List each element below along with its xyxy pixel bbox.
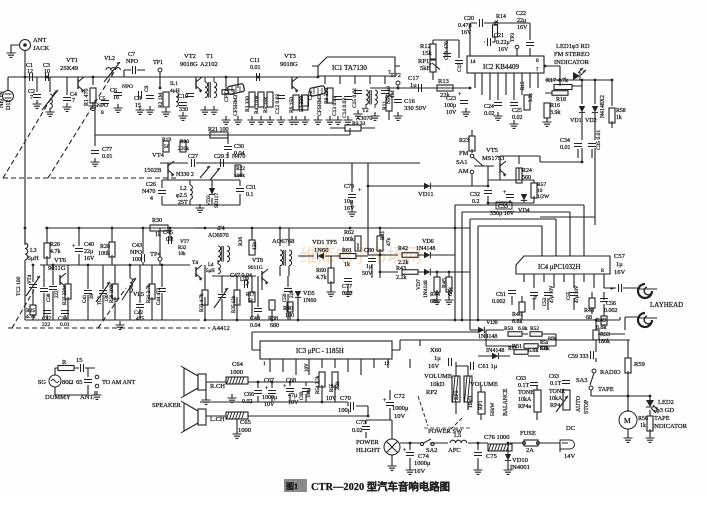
svg-text:1N4148: 1N4148 <box>423 280 429 298</box>
svg-text:4.7k: 4.7k <box>26 314 36 320</box>
diode VD1 <box>570 106 585 124</box>
capacitor C65 1000 <box>226 412 251 434</box>
svg-text:C38: C38 <box>47 293 52 302</box>
svg-text:VD5: VD5 <box>303 291 315 297</box>
svg-text:IN4148: IN4148 <box>486 348 504 354</box>
svg-text:22μ: 22μ <box>84 249 93 255</box>
svg-text:NEON: NEON <box>0 91 5 108</box>
resistor R60 4.7k <box>316 268 334 283</box>
diode VD7 <box>416 269 430 298</box>
wire <box>368 228 470 296</box>
svg-text:1000μ: 1000μ <box>414 460 431 467</box>
node TP3 <box>510 33 519 49</box>
svg-text:C63: C63 <box>549 374 559 380</box>
svg-text:1: 1 <box>263 361 266 367</box>
svg-text:65: 65 <box>76 379 83 386</box>
capacitor C51 0.002 <box>492 291 516 306</box>
svg-text:C76 1000: C76 1000 <box>484 434 509 441</box>
resistor R33 4.7k <box>200 290 208 312</box>
svg-text:C6: C6 <box>110 88 117 94</box>
wire <box>598 288 640 334</box>
capacitor C37 222 <box>42 311 51 329</box>
svg-text:C8: C8 <box>134 96 141 102</box>
fuse FUSE 2A <box>520 430 540 454</box>
resistor R50 6.8k <box>504 326 528 336</box>
svg-text:VT7: VT7 <box>180 240 190 245</box>
svg-text:AM: AM <box>458 168 469 175</box>
resistor R26 4.7k <box>44 242 61 258</box>
svg-text:C25: C25 <box>512 108 522 114</box>
wire <box>366 390 392 462</box>
svg-text:C34: C34 <box>560 138 570 144</box>
diode VD5 1N60 <box>295 291 317 304</box>
svg-text:R53: R53 <box>600 332 610 338</box>
svg-text:222: 222 <box>42 322 51 328</box>
tuning gang dashed link <box>98 288 126 328</box>
svg-text:DUMMY: DUMMY <box>45 394 71 401</box>
svg-text:R22: R22 <box>236 166 245 172</box>
svg-text:R7 330: R7 330 <box>299 96 305 112</box>
svg-text:12: 12 <box>384 361 390 367</box>
svg-text:TP2: TP2 <box>390 72 401 79</box>
capacitor C52 1u <box>530 293 538 301</box>
wire <box>25 280 200 320</box>
svg-text:VD6: VD6 <box>422 239 434 245</box>
svg-text:VT6: VT6 <box>54 257 67 264</box>
ground <box>89 102 98 110</box>
wire <box>270 359 388 375</box>
capacitor C4 <box>63 92 77 104</box>
capacitor C13 0.01 <box>332 96 342 116</box>
svg-text:VOLUME: VOLUME <box>424 373 452 380</box>
svg-text:47μ: 47μ <box>288 393 297 399</box>
svg-text:C66: C66 <box>244 392 254 398</box>
svg-text:C80: C80 <box>364 248 374 254</box>
wire <box>462 317 620 362</box>
svg-text:VOLUME: VOLUME <box>470 381 498 388</box>
ground <box>334 116 343 124</box>
capacitor C63b <box>549 374 570 387</box>
label LAYHEAD <box>650 301 683 309</box>
resistor R12 15k <box>420 43 436 59</box>
capacitor C-couple <box>186 94 194 97</box>
svg-text:图1: 图1 <box>286 482 298 491</box>
svg-text:T1: T1 <box>206 53 213 60</box>
potentiometer RP2 <box>452 376 472 402</box>
dashed link to switch <box>418 396 428 426</box>
ground <box>277 116 286 124</box>
svg-text:C59 333: C59 333 <box>568 354 589 360</box>
wire <box>471 130 473 153</box>
ground <box>474 466 483 474</box>
ground <box>136 106 145 114</box>
wire <box>368 163 488 186</box>
svg-text:R8 330: R8 330 <box>324 88 330 104</box>
resistor R17 5k <box>246 292 255 304</box>
ground <box>7 45 20 57</box>
ground <box>624 434 633 442</box>
svg-text:R61: R61 <box>342 248 352 254</box>
svg-text:C61 1μ: C61 1μ <box>478 363 498 370</box>
svg-text:C77: C77 <box>342 284 352 290</box>
resistor R25 4.7k <box>26 305 36 320</box>
wire <box>25 228 170 257</box>
capacitor C79 10u 16V <box>344 184 362 212</box>
tuning gang dashed link <box>8 327 210 329</box>
label VOLUME2 <box>454 381 498 408</box>
ground <box>494 112 503 120</box>
svg-text:C69: C69 <box>300 391 305 400</box>
svg-text:A2102: A2102 <box>200 61 218 68</box>
wire <box>162 180 240 205</box>
svg-text:C15 0.01: C15 0.01 <box>352 88 358 108</box>
capacitor C22 22u 16V <box>516 11 534 46</box>
capacitor C77b 0.02 <box>342 279 353 298</box>
svg-text:1k: 1k <box>616 115 622 121</box>
svg-text:16V: 16V <box>517 25 528 31</box>
wire <box>478 355 540 357</box>
inductor IL1 <box>170 81 180 106</box>
resistor R24 560 <box>516 168 532 183</box>
svg-text:100μ: 100μ <box>338 407 352 414</box>
svg-text:0.22μ: 0.22μ <box>496 40 510 46</box>
wire <box>545 86 582 93</box>
svg-text:100μ: 100μ <box>444 103 456 109</box>
variable inductor VL2 <box>104 56 120 82</box>
wire <box>370 85 470 88</box>
ground <box>314 116 323 124</box>
node TP4 <box>150 251 162 261</box>
resistor bias <box>222 90 234 95</box>
svg-text:R16: R16 <box>550 103 560 109</box>
label R58 333 <box>540 341 549 352</box>
svg-text:R59: R59 <box>634 361 645 368</box>
resistor R1 470 <box>84 88 96 106</box>
svg-text:0.01: 0.01 <box>102 154 113 160</box>
transistor VT6 <box>60 273 66 289</box>
dashed link to switch <box>448 418 462 432</box>
potentiometer RP4b <box>556 390 570 412</box>
svg-text:1M: 1M <box>390 90 396 98</box>
svg-text:0.2: 0.2 <box>472 199 480 205</box>
svg-text:100k: 100k <box>234 173 245 179</box>
svg-text:9011G: 9011G <box>248 265 263 271</box>
ground <box>46 108 55 116</box>
diode VD10 IN4001 <box>505 454 530 471</box>
op-amp IC1 TA7130 <box>318 57 395 76</box>
label SPEAKER <box>152 402 182 409</box>
node TP2 <box>390 72 401 89</box>
resistor R17 4.7k <box>546 78 572 90</box>
label BALANCE <box>503 388 509 416</box>
label VT7 <box>178 240 190 257</box>
wire <box>95 100 350 146</box>
svg-text:R2 1M: R2 1M <box>158 92 164 108</box>
svg-text:CTR—2020 型汽车音响电路图: CTR—2020 型汽车音响电路图 <box>311 480 450 493</box>
capacitor C8 <box>134 91 142 109</box>
svg-text:R49: R49 <box>596 318 606 324</box>
wire <box>100 70 200 77</box>
ground <box>394 112 403 120</box>
motor M <box>619 411 637 429</box>
svg-text:C16: C16 <box>404 98 416 105</box>
resistor R49 6.8k <box>596 316 607 331</box>
svg-text:INDICATOR: INDICATOR <box>554 59 590 66</box>
svg-text:R6 150: R6 150 <box>289 97 295 113</box>
svg-text:10V: 10V <box>305 363 310 372</box>
svg-text:R43: R43 <box>396 266 406 272</box>
svg-text:16V: 16V <box>614 269 626 276</box>
svg-text:C12 0.02: C12 0.02 <box>275 94 281 114</box>
switch SA1 FM/AM <box>456 150 483 175</box>
svg-text:222: 222 <box>55 290 60 298</box>
capacitor C33 330u 10V <box>490 190 515 217</box>
svg-text:5μH: 5μH <box>28 256 39 262</box>
capacitor C7 <box>124 52 145 74</box>
capacitor C24 0.02 <box>484 103 502 118</box>
wire <box>33 265 162 303</box>
capacitor C12 0.02 <box>275 94 285 114</box>
resistor R57 10 1/2W <box>531 182 550 200</box>
wire <box>470 23 530 56</box>
resistor R28 100k <box>98 242 115 257</box>
capacitor C61 1u <box>471 362 498 370</box>
svg-text:L.CH: L.CH <box>210 416 225 423</box>
wire <box>8 51 100 91</box>
ceramic filter CF2 <box>308 85 326 116</box>
svg-text:BALANCE: BALANCE <box>503 388 509 416</box>
junction <box>627 395 630 398</box>
resistor R22 100k <box>234 165 245 179</box>
wire <box>367 186 369 255</box>
svg-text:10: 10 <box>44 69 50 75</box>
svg-text:M: M <box>624 416 631 425</box>
svg-text:220: 220 <box>290 290 295 298</box>
svg-text:C29 3: C29 3 <box>214 154 229 160</box>
resistor R51 6.8k <box>508 344 550 352</box>
svg-text:C11: C11 <box>250 58 260 64</box>
capacitor C14 0.02 <box>342 97 352 119</box>
wire <box>582 113 612 140</box>
wire <box>205 260 288 307</box>
label A4412 <box>212 325 230 332</box>
svg-text:R11: R11 <box>382 101 388 110</box>
capacitor C18 470 <box>443 41 451 60</box>
svg-text:5k: 5k <box>248 299 254 304</box>
svg-text:R50: R50 <box>504 326 513 332</box>
svg-text:R1 470: R1 470 <box>84 88 90 106</box>
capacitor C45 0.2 <box>163 230 174 244</box>
svg-text:CFT1: CFT1 <box>224 89 230 102</box>
playback head lower <box>638 313 657 327</box>
svg-text:5kB: 5kB <box>420 65 432 72</box>
svg-text:14V: 14V <box>564 453 576 460</box>
ground <box>91 158 100 166</box>
svg-text:AO6768: AO6768 <box>272 238 294 245</box>
svg-text:C23: C23 <box>446 96 456 102</box>
svg-text:1N4148: 1N4148 <box>416 246 435 252</box>
svg-text:N470: N470 <box>142 189 155 195</box>
svg-text:2.2k: 2.2k <box>336 381 341 390</box>
label 50kW <box>490 402 496 416</box>
capacitor C23 100u 10V <box>444 92 468 116</box>
wire <box>45 227 470 229</box>
svg-text:0.01: 0.01 <box>60 322 70 328</box>
wire <box>488 156 540 203</box>
capacitor C48 0.04 <box>250 309 262 330</box>
capacitor C67 1000u 10V <box>262 378 277 408</box>
wire <box>24 77 26 245</box>
capacitor C63a <box>516 376 538 389</box>
svg-text:R4 110k: R4 110k <box>254 95 260 114</box>
svg-text:50V: 50V <box>362 271 373 277</box>
svg-text:SG: SG <box>38 379 47 386</box>
svg-text:R27 330: R27 330 <box>63 287 68 305</box>
svg-text:CF2: CF2 <box>308 90 314 100</box>
svg-text:56: 56 <box>164 144 170 150</box>
wire <box>507 443 509 466</box>
label VT6 9011G <box>48 257 67 272</box>
svg-text:C51: C51 <box>496 292 506 298</box>
svg-text:LAYHEAD: LAYHEAD <box>650 301 683 309</box>
svg-text:1000: 1000 <box>230 369 243 376</box>
svg-text:C5: C5 <box>99 96 106 102</box>
svg-text:POWER: POWER <box>356 439 379 446</box>
ground <box>266 116 275 124</box>
svg-text:C50: C50 <box>283 293 288 302</box>
svg-text:φ2.5: φ2.5 <box>176 193 187 199</box>
svg-text:47k: 47k <box>386 238 392 247</box>
ground <box>248 116 257 124</box>
resistor R45 68k <box>442 277 454 296</box>
svg-text:10kA: 10kA <box>549 396 563 402</box>
svg-text:C41: C41 <box>83 294 88 303</box>
transistor VT5 <box>482 147 506 177</box>
capacitor C27 <box>188 154 198 167</box>
wire <box>298 243 368 288</box>
label AO6768 <box>272 238 294 245</box>
wire <box>205 294 470 320</box>
LED LED2 <box>646 399 688 430</box>
svg-text:1502B: 1502B <box>144 167 162 174</box>
svg-text:C20: C20 <box>464 16 474 22</box>
ground <box>288 116 297 124</box>
svg-text:0.02: 0.02 <box>484 111 495 117</box>
svg-text:R5 15k: R5 15k <box>263 97 269 113</box>
resistor R51b 6.8k <box>512 344 539 354</box>
svg-text:R29 100k: R29 100k <box>110 283 115 303</box>
svg-text:TONE: TONE <box>518 390 534 396</box>
svg-text:C32: C32 <box>470 192 480 198</box>
ground <box>114 104 123 112</box>
svg-text:R17 4.7k: R17 4.7k <box>546 78 568 84</box>
svg-text:1N4148: 1N4148 <box>478 334 497 340</box>
wire <box>55 368 95 395</box>
svg-text:C77: C77 <box>102 147 112 153</box>
svg-text:100k: 100k <box>342 237 354 243</box>
svg-text:50kW: 50kW <box>490 402 496 416</box>
capacitor C15 <box>352 88 362 108</box>
tuning capacitor TC3 130 <box>96 282 110 305</box>
svg-text:R55: R55 <box>330 383 335 392</box>
label 10V <box>305 363 310 372</box>
ground <box>406 466 415 474</box>
svg-text:7: 7 <box>30 95 33 101</box>
svg-text:14: 14 <box>470 59 476 65</box>
ground <box>33 100 42 108</box>
diode VD4 <box>518 194 530 214</box>
svg-text:C17: C17 <box>408 75 420 82</box>
svg-text:IC2 KB4409: IC2 KB4409 <box>483 63 519 71</box>
svg-text:JACK: JACK <box>33 45 50 52</box>
ceramic filter CFT1 <box>224 83 245 116</box>
svg-text:C73: C73 <box>356 420 366 426</box>
wire <box>25 254 190 280</box>
svg-text:1k: 1k <box>155 232 161 238</box>
svg-text:VD8: VD8 <box>486 320 498 326</box>
svg-text:AFC: AFC <box>448 447 461 454</box>
label 80k <box>548 336 557 342</box>
svg-text:N4148X2: N4148X2 <box>600 95 606 118</box>
capacitor C59 333 <box>568 351 594 360</box>
capacitor C34 0.01 <box>560 138 582 151</box>
transistor VT4 label <box>28 274 33 284</box>
op-amp IC3 uPC1185H <box>260 341 392 367</box>
capacitor C53 47u 10V <box>543 285 555 306</box>
label TONE RP4a <box>518 390 534 410</box>
ground <box>257 116 266 124</box>
capacitor C3 <box>43 63 50 81</box>
inductor L3 <box>25 243 39 262</box>
capacitor C11 0.01 <box>250 58 261 81</box>
variable inductor VL5 <box>122 278 144 300</box>
wire <box>206 382 320 396</box>
capacitor C76 1000 <box>484 434 512 451</box>
svg-text:5μH: 5μH <box>206 269 215 274</box>
wire <box>392 340 630 368</box>
wire <box>462 212 570 320</box>
svg-text:VT4: VT4 <box>152 152 165 159</box>
svg-text:TP1: TP1 <box>153 60 163 66</box>
label POWER SW <box>424 428 470 435</box>
potentiometer RP1b <box>478 392 485 414</box>
trimmer arrows <box>200 166 220 180</box>
svg-text:330 50V: 330 50V <box>404 105 427 112</box>
svg-text:RP1: RP1 <box>478 400 484 410</box>
svg-text:1000μ: 1000μ <box>262 395 277 401</box>
neon lamp D12 <box>0 91 14 111</box>
svg-text:INDICATOR: INDICATOR <box>652 423 688 430</box>
tuning capacitor TC4 <box>214 288 228 308</box>
playback head upper <box>638 284 657 298</box>
ground <box>327 288 336 296</box>
svg-text:16V: 16V <box>414 468 426 475</box>
svg-text:C31: C31 <box>246 185 256 191</box>
svg-text:R30: R30 <box>152 218 162 224</box>
capacitor C16 330 50V <box>394 98 427 112</box>
ground <box>201 106 210 114</box>
wire <box>512 292 604 320</box>
resistor R30 1k <box>150 218 168 238</box>
capacitor C68 47u 10V <box>283 378 299 406</box>
svg-text:C26: C26 <box>146 182 156 188</box>
svg-text:8: 8 <box>601 268 604 274</box>
svg-text:C13 0.01: C13 0.01 <box>332 96 338 116</box>
transformer T1 <box>200 53 218 98</box>
svg-text:C30: C30 <box>234 144 244 150</box>
capacitor C21 0.22u <box>488 33 510 53</box>
svg-text:0.1: 0.1 <box>246 192 254 198</box>
